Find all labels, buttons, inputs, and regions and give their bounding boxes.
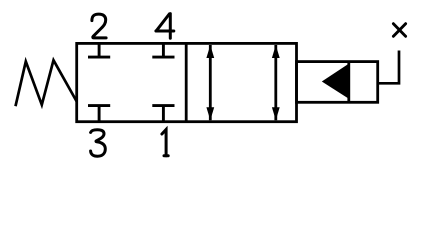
label 3 (91, 130, 106, 156)
pilot divider (347, 62, 350, 103)
valve body (77, 43, 297, 121)
label 4 (156, 14, 174, 39)
vent X (393, 24, 405, 37)
port 1 (blocked) (152, 106, 174, 122)
spring (16, 60, 77, 106)
label 2 (92, 14, 106, 38)
label 1 (162, 130, 168, 156)
pilot box (297, 62, 378, 103)
port 3 (blocked) (88, 106, 110, 122)
port 2 (blocked) (88, 43, 110, 57)
port 4 (blocked) (152, 43, 174, 57)
pilot triangle (322, 63, 350, 100)
flow path arrow left (206, 45, 214, 120)
position divider (185, 43, 188, 121)
flow path arrow right (272, 45, 280, 120)
wire: pilot to vent (378, 51, 399, 84)
